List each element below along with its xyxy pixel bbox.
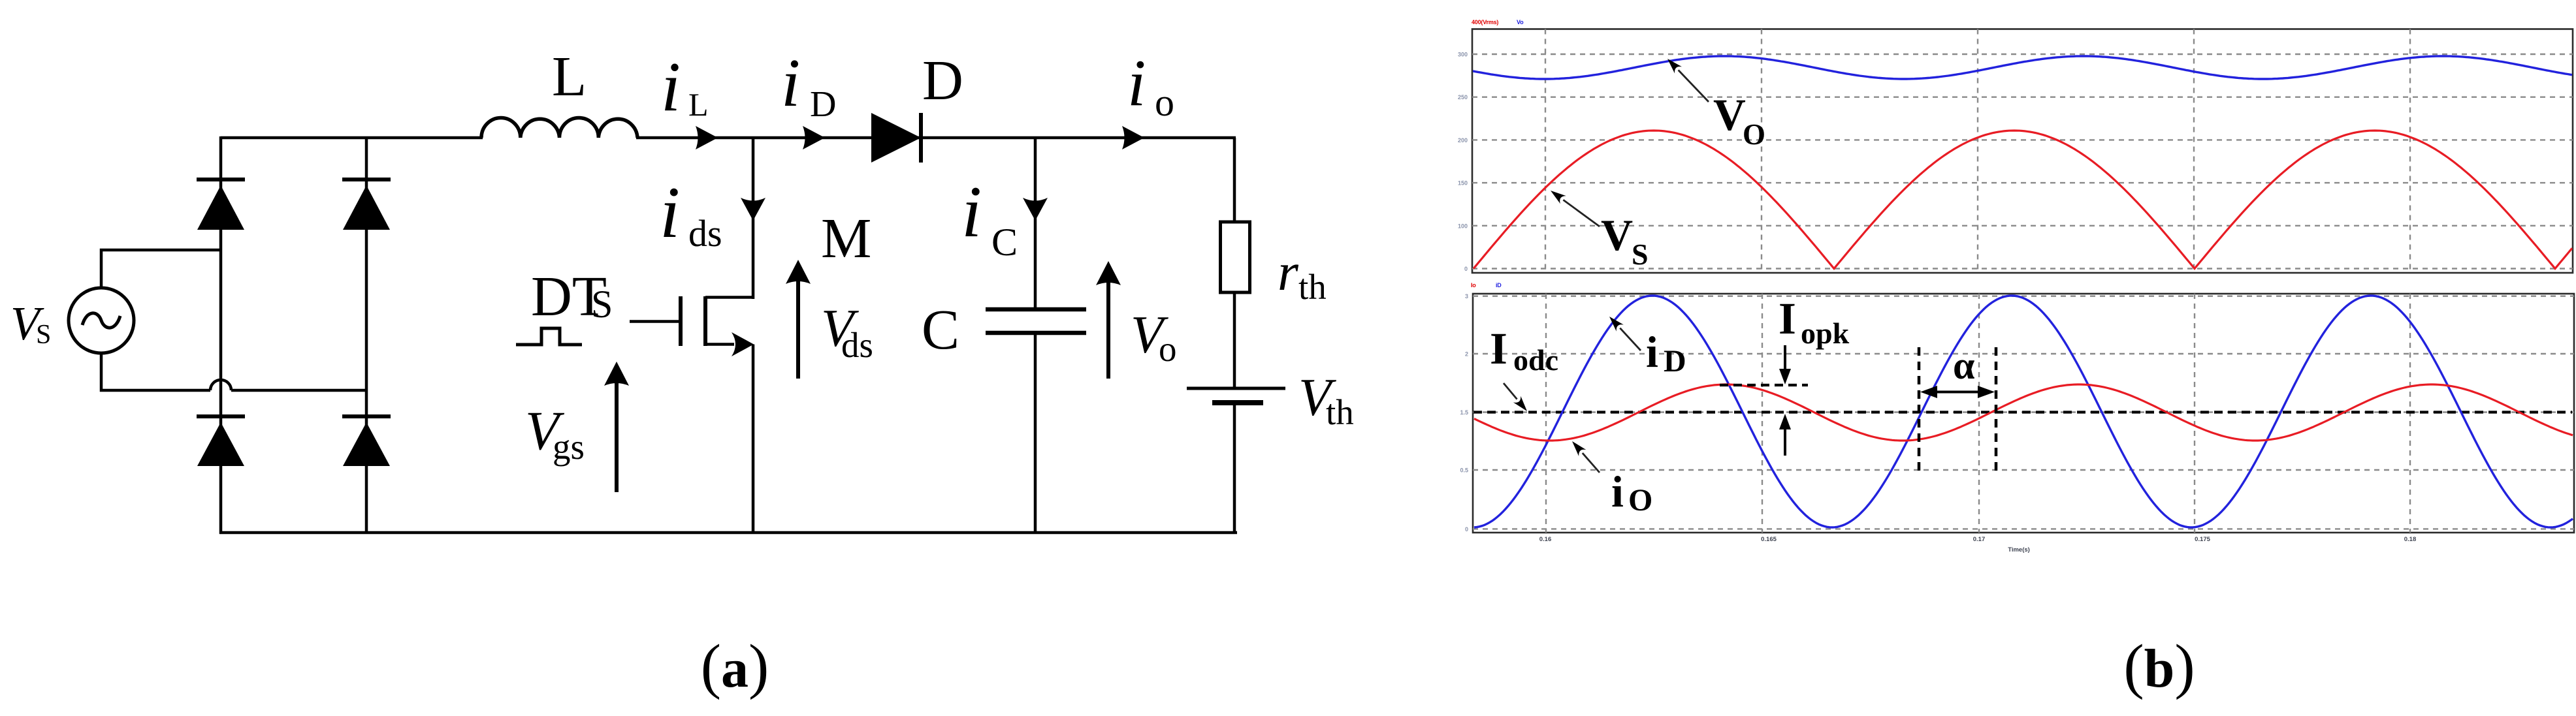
transistor M source lead (705, 343, 734, 346)
wire VS bottom terminal (101, 353, 210, 390)
arrow iO to curve (1583, 453, 1600, 473)
svg-text:0.17: 0.17 (1973, 536, 1986, 543)
transistor M (MOSFET) drain lead (705, 296, 753, 299)
alpha double arrow (1928, 391, 1987, 394)
gridlines bottom plot (1473, 296, 2574, 297)
diode D2 bridge top-right (342, 178, 391, 181)
wire hop over left branch (210, 380, 231, 390)
curve iD (blue, bottom plot) (1474, 296, 2573, 527)
svg-text:odc: odc (1513, 343, 1558, 377)
svg-text:(a): (a) (701, 632, 769, 700)
svg-text:S: S (591, 283, 613, 326)
svg-text:0: 0 (1464, 266, 1468, 272)
svg-text:S: S (36, 320, 51, 350)
arrow Iodc to line (1504, 383, 1517, 399)
wire capacitor branch top (1034, 138, 1037, 309)
svg-text:400(Vrms): 400(Vrms) (1472, 19, 1498, 25)
battery Vth long plate (1187, 387, 1285, 390)
svg-text:I: I (1779, 294, 1796, 343)
diode D1 bridge top-left (197, 178, 245, 181)
transistor M source arrowhead (732, 332, 754, 356)
current arrow ids (741, 198, 765, 221)
Iodc dashed level line (1473, 411, 2572, 413)
wire top rail left segment (221, 136, 483, 140)
wire hop to right branch (231, 389, 366, 392)
plot box bottom (1473, 294, 2574, 533)
wire MOSFET drain branch (752, 138, 755, 299)
svg-text:2: 2 (1465, 351, 1468, 358)
svg-text:0: 0 (1465, 526, 1468, 533)
wire VS top terminal (101, 250, 222, 288)
wire right branch top (1233, 138, 1236, 222)
svg-text:o: o (1155, 81, 1174, 124)
svg-text:300: 300 (1458, 52, 1468, 58)
svg-text:D: D (922, 48, 963, 112)
svg-text:C: C (922, 298, 959, 361)
current arrow io (1122, 126, 1144, 149)
transistor M channel bar (703, 296, 707, 346)
svg-text:L: L (688, 86, 709, 123)
svg-text:th: th (1298, 267, 1327, 307)
svg-text:0.16: 0.16 (1539, 536, 1552, 543)
svg-text:r: r (1278, 242, 1299, 302)
gridlines top plot (1472, 54, 2573, 55)
wire resistor to battery (1233, 292, 1236, 388)
wire battery to bottom rail (1233, 403, 1236, 534)
arrow to Vo curve (1679, 70, 1709, 102)
alpha right dashed marker (1995, 347, 1998, 476)
diode D3 bridge bottom-left (197, 414, 245, 418)
svg-text:gs: gs (553, 427, 585, 467)
svg-text:Io: Io (1471, 282, 1476, 288)
svg-text:0.175: 0.175 (2195, 536, 2210, 543)
svg-text:3: 3 (1465, 293, 1468, 300)
svg-text:(b): (b) (2123, 632, 2195, 700)
svg-text:ds: ds (841, 325, 873, 365)
svg-text:i: i (1646, 327, 1658, 377)
svg-text:D: D (810, 84, 836, 125)
svg-text:0.5: 0.5 (1460, 467, 1468, 474)
svg-text:iD: iD (1496, 282, 1502, 288)
svg-text:250: 250 (1458, 94, 1468, 101)
svg-text:i: i (661, 48, 681, 126)
wire right bridge branch (365, 136, 368, 534)
transistor M gate bar (679, 296, 683, 346)
transistor M gate lead (630, 320, 679, 323)
voltage arrow Vds (796, 279, 800, 379)
svg-text:C: C (991, 221, 1018, 264)
alpha left dashed marker (1918, 347, 1921, 476)
source VS tilde (82, 313, 120, 328)
svg-text:ds: ds (688, 212, 722, 255)
current arrow iC (1023, 198, 1048, 221)
curve VS (red, top plot) (1473, 131, 2572, 269)
voltage arrow Vo (1106, 281, 1110, 379)
svg-text:V: V (1713, 90, 1746, 140)
svg-text:150: 150 (1458, 180, 1468, 187)
wire left bridge branch (219, 136, 223, 534)
Iopk peak level dash (1720, 384, 1808, 386)
svg-text:S: S (1632, 238, 1649, 271)
svg-text:i: i (660, 172, 680, 253)
voltage arrow Vgs (615, 381, 619, 492)
wire bottom rail (219, 531, 1237, 535)
svg-text:opk: opk (1801, 317, 1850, 350)
svg-text:Vo: Vo (1517, 19, 1524, 25)
svg-text:O: O (1628, 483, 1652, 518)
svg-text:α: α (1953, 344, 1975, 387)
svg-text:0.18: 0.18 (2404, 536, 2417, 543)
svg-text:O: O (1743, 118, 1765, 151)
svg-text:D: D (1664, 344, 1686, 379)
svg-text:200: 200 (1458, 137, 1468, 144)
arrow iD to curve (1620, 328, 1641, 350)
gate pulse DTS symbol (516, 328, 582, 345)
Iopk lower arrow (1784, 428, 1786, 456)
svg-text:i: i (1611, 467, 1624, 516)
wire capacitor branch bottom (1034, 333, 1037, 534)
wire top rail right segment (636, 136, 1236, 140)
svg-text:o: o (1159, 329, 1177, 369)
svg-text:1.5: 1.5 (1460, 409, 1468, 416)
svg-text:I: I (1490, 324, 1507, 373)
svg-text:M: M (821, 206, 871, 270)
svg-text:100: 100 (1458, 223, 1468, 229)
arrow to VS curve (1563, 200, 1600, 226)
current arrow iD (803, 126, 825, 149)
Iopk upper arrow (1784, 345, 1786, 371)
curve Vo (blue, top plot) (1473, 56, 2572, 79)
svg-text:Time(s): Time(s) (2008, 546, 2030, 553)
wire MOSFET source to bottom rail (752, 345, 755, 535)
resistor rth (1221, 222, 1250, 292)
svg-text:i: i (1127, 46, 1146, 120)
source VS circle (69, 288, 134, 353)
plot box top (1472, 29, 2573, 273)
svg-text:th: th (1326, 392, 1354, 432)
inductor L (481, 117, 637, 138)
battery Vth short plate (1212, 400, 1263, 405)
svg-text:0.165: 0.165 (1761, 536, 1777, 543)
svg-text:V: V (1601, 210, 1633, 260)
current arrow iL (696, 126, 718, 149)
diode D (871, 113, 921, 163)
curve iO (red, bottom plot) (1474, 384, 2573, 441)
svg-text:i: i (781, 44, 800, 121)
capacitor C plates (986, 307, 1086, 312)
svg-text:i: i (961, 172, 982, 253)
diode D4 bridge bottom-right (342, 414, 391, 418)
svg-text:L: L (552, 44, 587, 108)
